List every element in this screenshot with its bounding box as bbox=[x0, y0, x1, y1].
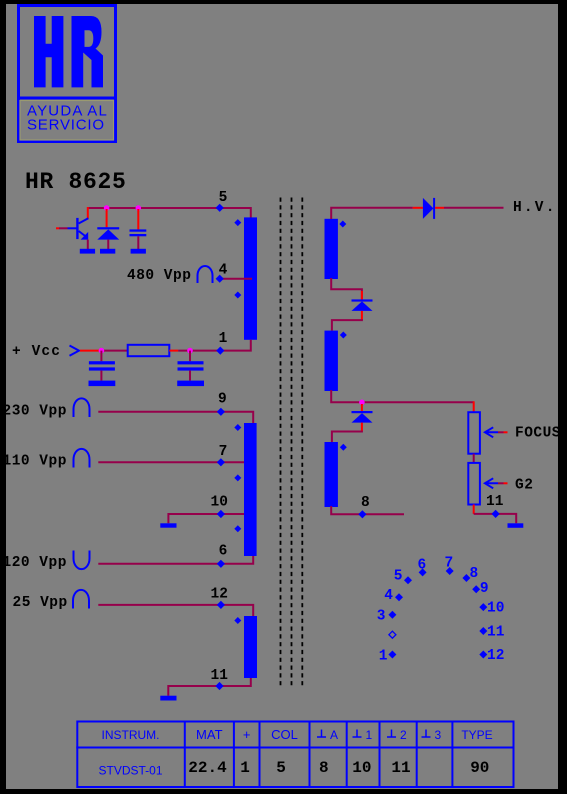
svg-text:+: + bbox=[243, 727, 251, 742]
svg-text:5: 5 bbox=[394, 569, 403, 585]
wire cap red stub bbox=[137, 209, 139, 229]
wire pin 11 right bbox=[474, 513, 517, 523]
svg-text:11: 11 bbox=[486, 494, 504, 510]
secondary winding L3 bbox=[244, 616, 257, 678]
waveform symbol 480 bbox=[198, 266, 213, 283]
ground (C3) bbox=[177, 381, 204, 387]
wire HV anode red bbox=[413, 207, 423, 209]
pinout diagram bbox=[377, 556, 505, 665]
winding dot L3a bbox=[234, 617, 241, 624]
svg-text:90: 90 bbox=[470, 759, 489, 777]
svg-text:11: 11 bbox=[211, 668, 229, 684]
wire winding B bottom to focus bbox=[331, 390, 474, 402]
wire collector red segment bbox=[87, 207, 89, 219]
wire between resistors bbox=[473, 454, 475, 463]
pin 11 marker bbox=[479, 627, 487, 635]
secondary winding L2 bbox=[244, 423, 257, 556]
wire pin 10 bbox=[168, 513, 244, 523]
node junction dot (C3) bbox=[187, 348, 193, 354]
svg-text:TYPE: TYPE bbox=[461, 728, 492, 742]
wire base lead bbox=[59, 227, 68, 229]
pin 7 marker bbox=[446, 567, 454, 575]
wire diode red stub bbox=[106, 209, 108, 227]
wire to pin 1 bbox=[178, 340, 251, 352]
svg-text:1: 1 bbox=[240, 759, 250, 777]
svg-text:1: 1 bbox=[379, 649, 388, 665]
svg-text:11: 11 bbox=[391, 759, 410, 777]
svg-text:6: 6 bbox=[219, 544, 228, 560]
svg-text:1: 1 bbox=[219, 331, 228, 347]
svg-text:12: 12 bbox=[487, 648, 504, 664]
wire pin 6 bbox=[98, 556, 253, 565]
diode D4 HV bbox=[423, 198, 435, 219]
node junction dot (D3) bbox=[359, 400, 365, 406]
ground (G2) bbox=[508, 523, 524, 528]
svg-text:6: 6 bbox=[418, 558, 427, 574]
pin 8 marker bbox=[462, 574, 470, 582]
wire pin 11 bbox=[168, 678, 251, 696]
wire D3 lower red bbox=[361, 423, 363, 432]
ground (pin 11) bbox=[160, 696, 176, 701]
node junction dot (diode) bbox=[104, 205, 110, 211]
svg-text:MAT: MAT bbox=[196, 727, 223, 742]
wire to winding B top bbox=[332, 319, 363, 331]
wire top primary net pin 5 bbox=[88, 208, 251, 218]
wire C2 stem bbox=[100, 351, 102, 362]
svg-text:3: 3 bbox=[435, 728, 442, 742]
svg-text:HR 8625: HR 8625 bbox=[25, 169, 127, 195]
winding dot L1a bbox=[234, 219, 241, 226]
table header gnd 3 bbox=[422, 728, 442, 742]
winding dot L2a bbox=[234, 424, 241, 431]
wire winding A bottom bbox=[331, 278, 363, 299]
svg-text:+ Vcc: + Vcc bbox=[12, 344, 61, 360]
capacitor C1 bbox=[130, 229, 147, 236]
wire to winding C top bbox=[332, 431, 363, 443]
diode D2 bbox=[352, 299, 373, 311]
ground (pin 10) bbox=[160, 523, 176, 527]
table header gnd 2 bbox=[387, 728, 407, 742]
ground (C2) bbox=[89, 381, 116, 387]
pin 6 marker bbox=[419, 568, 427, 576]
wire to HV label bbox=[444, 207, 504, 209]
ground (emitter) bbox=[80, 249, 95, 254]
core dashed line 3 bbox=[301, 198, 303, 689]
wire D2 red stub bbox=[361, 291, 363, 299]
core dashed line 2 bbox=[291, 198, 293, 689]
svg-text:25 Vpp: 25 Vpp bbox=[13, 595, 68, 611]
node junction dot (cap) bbox=[136, 205, 142, 211]
svg-text:G2: G2 bbox=[515, 478, 533, 494]
svg-text:10: 10 bbox=[352, 759, 371, 777]
winding dot B bbox=[340, 332, 347, 339]
pin 5 marker bbox=[404, 576, 412, 584]
svg-text:11: 11 bbox=[487, 625, 505, 641]
ground (cap) bbox=[131, 249, 146, 254]
node junction dot (C2) bbox=[99, 348, 105, 354]
waveform symbol 230 bbox=[74, 398, 90, 417]
capacitor C2 bbox=[89, 361, 115, 370]
table header gnd 1 bbox=[353, 728, 373, 742]
svg-text:4: 4 bbox=[219, 263, 228, 279]
wire C2 lower stem bbox=[100, 371, 102, 381]
wire emitter stem bbox=[87, 240, 89, 249]
diode D3 bbox=[352, 411, 373, 423]
node pin 5 bbox=[216, 204, 224, 212]
winding dot L2c bbox=[234, 525, 241, 532]
svg-text:FOCUS: FOCUS bbox=[515, 426, 561, 442]
capacitor C3 bbox=[178, 361, 204, 370]
logo letter R bbox=[72, 16, 104, 87]
wire pin 9 bbox=[98, 411, 253, 423]
svg-text:5: 5 bbox=[276, 759, 286, 777]
svg-text:7: 7 bbox=[445, 556, 454, 572]
svg-text:230 Vpp: 230 Vpp bbox=[3, 404, 67, 420]
svg-text:COL: COL bbox=[271, 727, 298, 742]
wire Vcc to resistor bbox=[99, 350, 128, 352]
wire HV cathode red bbox=[435, 207, 444, 209]
winding dot C bbox=[340, 444, 347, 451]
wire Vcc red segment bbox=[80, 350, 99, 352]
transistor Q1 bbox=[68, 218, 89, 240]
wire C3 stem bbox=[189, 351, 191, 362]
svg-text:8: 8 bbox=[470, 566, 479, 582]
svg-text:STVDST-01: STVDST-01 bbox=[98, 764, 162, 778]
ground (diode) bbox=[100, 249, 115, 254]
svg-text:8: 8 bbox=[361, 495, 370, 511]
node pin 4 bbox=[216, 275, 224, 283]
wire pin 4 tap bbox=[220, 278, 252, 280]
pin 12 marker bbox=[479, 651, 487, 659]
node pin 1 bbox=[216, 347, 224, 355]
logo letter H bbox=[34, 16, 63, 87]
data table bbox=[76, 721, 514, 788]
core dashed line 1 bbox=[280, 198, 282, 689]
svg-text:INSTRUM.: INSTRUM. bbox=[102, 728, 160, 742]
svg-text:110 Vpp: 110 Vpp bbox=[3, 453, 67, 469]
wire cap stem bbox=[137, 236, 139, 249]
node pin 7 bbox=[217, 458, 225, 466]
HV winding B bbox=[325, 331, 338, 391]
wire focus red stub bbox=[473, 401, 475, 412]
wire resistor right red bbox=[169, 350, 178, 352]
svg-text:120 Vpp: 120 Vpp bbox=[3, 555, 67, 571]
svg-text:9: 9 bbox=[480, 581, 489, 597]
focus arrow bbox=[485, 427, 508, 437]
wire diode stem bbox=[107, 240, 109, 249]
svg-text:1: 1 bbox=[366, 728, 373, 742]
svg-text:10: 10 bbox=[487, 601, 504, 617]
svg-text:7: 7 bbox=[219, 444, 228, 460]
node pin 11 bbox=[215, 682, 223, 690]
pin 1 marker bbox=[388, 651, 396, 659]
table header gnd A bbox=[317, 728, 338, 742]
svg-text:10: 10 bbox=[211, 495, 228, 511]
primary winding L1 bbox=[244, 217, 257, 339]
wire winding A top to HV bbox=[331, 208, 413, 219]
logo HR box bbox=[17, 6, 117, 142]
wire D2 lower red bbox=[361, 311, 363, 320]
winding dot A bbox=[339, 221, 346, 228]
svg-text:SERVICIO: SERVICIO bbox=[27, 117, 105, 134]
svg-text:480 Vpp: 480 Vpp bbox=[127, 268, 191, 284]
HV winding A bbox=[325, 219, 338, 279]
svg-text:3: 3 bbox=[377, 609, 386, 625]
resistor R3 G2 bbox=[468, 463, 480, 505]
winding dot L2b bbox=[234, 474, 241, 481]
svg-text:12: 12 bbox=[211, 587, 228, 603]
pin 10 marker bbox=[479, 603, 487, 611]
svg-text:4: 4 bbox=[384, 588, 393, 604]
pin 9 marker bbox=[472, 585, 480, 593]
pin 2 marker hollow bbox=[389, 631, 396, 638]
svg-text:2: 2 bbox=[400, 728, 407, 742]
waveform symbol 120 (inverted) bbox=[74, 551, 90, 570]
svg-text:22.4: 22.4 bbox=[188, 759, 227, 777]
svg-text:8: 8 bbox=[319, 759, 329, 777]
Vcc input arrow bbox=[70, 346, 80, 356]
G2 arrow bbox=[485, 478, 508, 488]
svg-text:5: 5 bbox=[219, 190, 228, 206]
svg-text:H.V.: H.V. bbox=[513, 200, 557, 216]
wire pin 7 bbox=[98, 461, 244, 463]
node pin 8 bbox=[358, 510, 366, 518]
node pin 10 bbox=[217, 510, 225, 518]
waveform symbol 25 bbox=[73, 590, 89, 609]
wire G2 bottom red bbox=[473, 505, 475, 514]
wire D3 red stub bbox=[361, 404, 363, 411]
pin 4 marker bbox=[395, 593, 403, 601]
resistor R2 FOCUS bbox=[468, 412, 480, 454]
resistor R1 bbox=[128, 345, 170, 356]
svg-text:9: 9 bbox=[218, 392, 227, 408]
pin 3 marker bbox=[388, 611, 396, 619]
wire winding C bottom pin 8 bbox=[331, 506, 404, 514]
node pin 6 bbox=[217, 560, 225, 568]
waveform symbol 110 bbox=[74, 449, 90, 468]
node pin 11 right bbox=[492, 510, 500, 518]
node pin 9 bbox=[217, 408, 225, 416]
svg-text:A: A bbox=[330, 728, 338, 742]
node pin 12 bbox=[217, 601, 225, 609]
diode D1 damper bbox=[97, 227, 119, 239]
wire C3 lower stem bbox=[189, 371, 191, 381]
winding dot L1b bbox=[234, 292, 241, 299]
wire pin 12 bbox=[98, 604, 253, 616]
HV winding C bbox=[325, 442, 338, 507]
